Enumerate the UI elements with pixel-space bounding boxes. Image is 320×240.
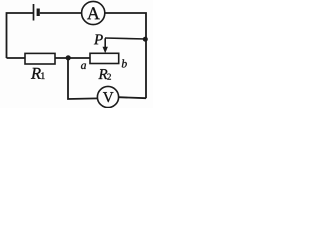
label R2 (98, 69, 110, 79)
rheostat R2 body (90, 53, 119, 63)
slider P label (94, 34, 103, 44)
wire voltmeter to right rail (118, 97, 146, 98)
wire battery left lead + left rail (7, 13, 34, 58)
wire left rail to R1 (7, 57, 26, 59)
junction dot R1/R2/voltmeter (66, 55, 71, 60)
voltmeter circle (97, 86, 118, 107)
resistor R1 body (25, 53, 55, 64)
wire R1 to R2 (node a) (55, 57, 90, 59)
junction dot wiper-rail (143, 37, 148, 42)
slider wiper arrow (103, 38, 108, 53)
node b label (122, 59, 127, 67)
wire battery to ammeter (40, 12, 82, 14)
node a label (81, 63, 86, 69)
wire wiper to right rail (105, 38, 146, 39)
wire ammeter to top-right corner + right rail (105, 13, 147, 98)
ammeter letter A (87, 7, 100, 19)
battery cell (34, 4, 39, 21)
voltmeter letter V (103, 92, 113, 102)
label R1 (31, 68, 45, 79)
ammeter circle (82, 1, 105, 24)
wire node down to voltmeter (68, 58, 97, 99)
